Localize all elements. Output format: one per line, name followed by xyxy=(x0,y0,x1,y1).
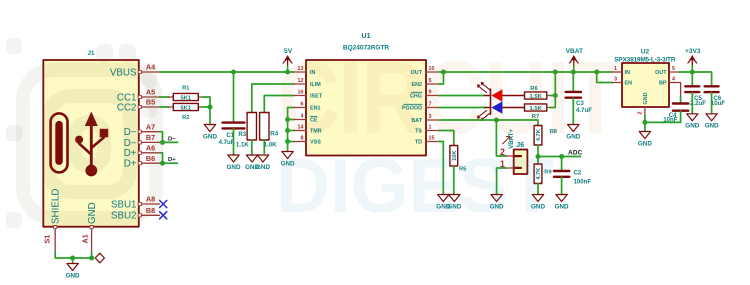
svg-text:OUT: OUT xyxy=(411,70,423,76)
svg-text:2: 2 xyxy=(638,112,644,115)
wire BP to C4 (lead) xyxy=(679,83,681,98)
svg-text:GND: GND xyxy=(566,133,580,140)
J1 USB-C plug outline glyph xyxy=(51,113,68,172)
ground R9 xyxy=(531,195,545,211)
svg-text:4: 4 xyxy=(301,114,304,120)
U1 pin 10 OUT (right) xyxy=(426,71,439,73)
svg-text:R2: R2 xyxy=(182,115,189,121)
watermark CIRCUIT text xyxy=(277,46,620,149)
svg-text:1.5K: 1.5K xyxy=(530,106,543,112)
wire R5 to GND xyxy=(453,166,455,195)
no-connect SBU1 X mark xyxy=(160,200,167,207)
svg-text:IN: IN xyxy=(310,70,315,76)
J1 pin A1 GND stub xyxy=(91,227,93,252)
J1 pin B6 D+ stub xyxy=(139,162,160,164)
U2 pin 1 IN xyxy=(613,71,622,73)
IC U1 BQ24073RGTR body xyxy=(306,60,426,156)
svg-text:10K: 10K xyxy=(452,151,458,161)
svg-text:D−: D− xyxy=(168,136,176,142)
wire OUT rail xyxy=(439,71,613,73)
svg-text:R4: R4 xyxy=(270,131,278,138)
svg-text:EN1: EN1 xyxy=(310,106,321,112)
junction U2 GND/C4 xyxy=(642,120,647,125)
svg-text:GND: GND xyxy=(490,203,504,210)
svg-text:14: 14 xyxy=(298,125,304,131)
U1 pin 4 CE (left) xyxy=(294,119,306,121)
wire BP to C4 xyxy=(680,96,682,104)
wire C1 to GND xyxy=(233,129,235,155)
resistor R4 1.0K xyxy=(260,113,269,141)
svg-text:4.7uF: 4.7uF xyxy=(576,107,592,114)
resistor R7 1.5K xyxy=(525,104,547,112)
ground J6 xyxy=(490,195,504,211)
capacitor C1 4.7uF xyxy=(223,123,245,129)
ground R5 xyxy=(447,195,461,211)
wire D+ pair A6-B6 xyxy=(160,153,163,163)
svg-text:U1: U1 xyxy=(362,33,371,40)
LED D1 red (charging) xyxy=(485,95,525,97)
IC U2 SPX3819M5-L-3-3/TR body xyxy=(622,63,669,107)
U1 pin 14 TMR (left) xyxy=(294,130,306,132)
U2 pin 2 GND xyxy=(644,107,646,116)
junction OUT/EN2 xyxy=(441,70,446,75)
junction ADC/C2 xyxy=(559,154,564,159)
wire GND stub xyxy=(72,258,74,264)
svg-text:A7: A7 xyxy=(146,122,155,131)
J1 pin A4 VBUS stub xyxy=(139,71,160,73)
ground J1 shield xyxy=(66,264,80,280)
resistor R1 5K1 xyxy=(173,93,198,101)
svg-text:5: 5 xyxy=(429,78,432,84)
ground C1 xyxy=(227,155,241,171)
junction TMR node xyxy=(285,128,290,133)
junction D- node xyxy=(160,140,165,145)
svg-text:VBUS: VBUS xyxy=(110,67,137,78)
junction 3V3 xyxy=(690,70,695,75)
svg-text:VSS: VSS xyxy=(310,140,321,146)
power symbol VBAT xyxy=(566,48,583,72)
svg-text:B8: B8 xyxy=(146,206,155,215)
wire ADC net xyxy=(538,156,581,158)
U1 pin 8 VSS (left) xyxy=(294,141,306,143)
svg-text:9: 9 xyxy=(429,90,432,96)
ground C2 xyxy=(555,195,569,211)
svg-text:D−: D− xyxy=(124,127,137,138)
wire ADC to C2 xyxy=(561,157,563,171)
wire D+ net stub xyxy=(160,162,178,164)
svg-text:R8: R8 xyxy=(550,129,558,135)
U1 pin 16 ISET (left) xyxy=(294,95,306,97)
wire R3 to GND xyxy=(251,140,253,155)
svg-text:A6: A6 xyxy=(146,144,155,153)
connector J6 battery body xyxy=(514,150,528,175)
svg-text:SPX3819M5-L-3-3/TR: SPX3819M5-L-3-3/TR xyxy=(614,56,676,63)
svg-text:J1: J1 xyxy=(87,50,95,57)
unconnected flag diamond at A1 xyxy=(95,253,104,263)
resistor R2 5K1 xyxy=(173,103,198,111)
watermark DIGEST text xyxy=(276,148,554,225)
svg-text:ISET: ISET xyxy=(310,94,323,100)
svg-text:SBU2: SBU2 xyxy=(111,211,137,222)
J1 pin B8 SBU2 stub xyxy=(139,214,160,216)
svg-text:J6: J6 xyxy=(516,142,524,149)
wire ILIM to R3 xyxy=(252,84,294,113)
ground C6 xyxy=(705,114,719,130)
J1 USB trident symbol xyxy=(75,112,108,177)
capacitor C6 10uF xyxy=(705,86,719,92)
svg-text:1: 1 xyxy=(614,66,617,72)
LED D2 blue (power good) xyxy=(485,107,525,109)
svg-text:A4: A4 xyxy=(146,63,155,72)
svg-text:GND: GND xyxy=(685,123,699,130)
svg-text:GND: GND xyxy=(531,203,545,210)
wire VBUS rail xyxy=(160,71,295,73)
svg-text:BP: BP xyxy=(659,81,667,87)
svg-text:ADC: ADC xyxy=(568,150,583,157)
svg-text:R6: R6 xyxy=(530,86,538,92)
ground TD xyxy=(436,195,450,211)
wire SHIELD to GND xyxy=(55,252,91,259)
wire CHG to LED D1 xyxy=(439,95,485,97)
svg-text:3: 3 xyxy=(429,114,432,120)
svg-text:TD: TD xyxy=(415,140,422,146)
wire R1 to R2 node xyxy=(202,97,210,107)
wire LED resistors to OUT xyxy=(550,72,555,108)
U1 pin 15 TD (right) xyxy=(426,141,439,143)
resistor R2 lead xyxy=(169,106,203,108)
LED D1/D2 cathode bar xyxy=(490,89,492,114)
svg-text:U2: U2 xyxy=(641,49,650,56)
global label VBAT+ arrow xyxy=(503,137,510,144)
svg-text:R5: R5 xyxy=(459,167,467,173)
svg-text:D−: D− xyxy=(124,138,137,149)
U1 pin 13 IN (left) xyxy=(294,71,306,73)
resistor R6 1.5K xyxy=(525,92,547,100)
U1 pin 1 TS (right) xyxy=(426,130,439,132)
resistor R5 10K xyxy=(450,146,458,167)
U1 pin 5 EN2 (right) xyxy=(426,83,439,85)
svg-text:10: 10 xyxy=(429,66,435,72)
wire OUT to 3V3/C6 xyxy=(679,72,712,86)
svg-text:R3: R3 xyxy=(238,131,246,138)
svg-text:D+: D+ xyxy=(124,159,137,170)
svg-text:VBAT: VBAT xyxy=(566,48,583,55)
wire 3V3 to C5 xyxy=(691,72,693,86)
svg-text:GND: GND xyxy=(281,160,295,167)
svg-text:GND: GND xyxy=(436,203,450,210)
svg-text:D+: D+ xyxy=(168,157,176,163)
svg-text:13: 13 xyxy=(298,66,304,72)
svg-text:3: 3 xyxy=(614,76,617,82)
svg-text:S1: S1 xyxy=(43,235,52,244)
J1 pin B7 D&#8722; stub xyxy=(139,141,160,143)
U1 CE overline xyxy=(310,115,317,117)
junction R1/R2 node xyxy=(208,105,213,110)
svg-text:12: 12 xyxy=(298,78,304,84)
svg-text:GND: GND xyxy=(256,164,270,171)
J1 pin S1 SHIELD stub xyxy=(54,227,56,252)
wire J6 pin1 to GND xyxy=(497,168,507,195)
LED D2 emission arrows xyxy=(478,110,491,120)
svg-text:SHIELD: SHIELD xyxy=(51,189,62,224)
U1 pin 6 EN1 (left) xyxy=(294,107,306,109)
junction D+ node xyxy=(160,161,165,166)
svg-text:5K1: 5K1 xyxy=(180,105,191,111)
svg-text:+3V3: +3V3 xyxy=(685,48,701,55)
capacitor C5 2.2uF xyxy=(685,86,699,92)
resistor R9 4.7K xyxy=(534,164,542,184)
resistor R6/R7 right leads xyxy=(547,96,550,108)
svg-text:B5: B5 xyxy=(146,98,155,107)
wire TS to R5 xyxy=(439,131,454,146)
svg-text:100nF: 100nF xyxy=(574,178,592,185)
junction CE node xyxy=(285,117,290,122)
junction OUT/LED resistors xyxy=(553,70,558,75)
svg-text:4: 4 xyxy=(672,76,675,82)
U1 PGOOD overline xyxy=(404,103,422,105)
svg-text:R1: R1 xyxy=(182,86,190,92)
wire EN to OUT rail xyxy=(597,72,613,83)
svg-text:6: 6 xyxy=(301,102,304,108)
svg-text:IN: IN xyxy=(625,70,630,76)
wire VBAT to C3 xyxy=(572,72,574,92)
capacitor C2 100nF xyxy=(554,171,569,177)
U1 CHG overline xyxy=(412,91,423,93)
wire EN2 to OUT xyxy=(439,72,444,84)
J6 pin 1 contact xyxy=(514,167,521,169)
wire CE to rail xyxy=(288,119,294,121)
U2 pin 5 OUT xyxy=(669,71,679,73)
wire R8 to R9 xyxy=(537,145,539,164)
ground U2 xyxy=(638,132,652,148)
svg-text:CC2: CC2 xyxy=(117,102,137,113)
ground R4 xyxy=(256,155,270,171)
capacitor C3 4.7uF xyxy=(566,92,581,98)
junction A1/GND node xyxy=(89,256,94,261)
svg-text:2: 2 xyxy=(500,147,505,157)
svg-text:A8: A8 xyxy=(146,195,155,204)
svg-text:1: 1 xyxy=(429,125,432,131)
svg-text:TS: TS xyxy=(415,129,422,135)
wire TD to GND xyxy=(439,142,443,195)
power symbol 5V xyxy=(283,48,293,72)
LED D1 emission arrows xyxy=(478,83,491,93)
wire C3 to GND xyxy=(572,98,574,124)
wire VBUS to C1 xyxy=(233,72,235,122)
J1 pin B5 CC2 stub xyxy=(139,106,160,108)
ground CC pulldowns xyxy=(203,125,217,141)
J1 pin A5 CC1 stub xyxy=(139,96,160,98)
wire EN1 ground rail xyxy=(288,108,294,152)
svg-text:CE: CE xyxy=(310,118,318,124)
svg-text:SBU1: SBU1 xyxy=(111,199,137,210)
svg-text:16: 16 xyxy=(298,90,304,96)
svg-text:TMR: TMR xyxy=(310,129,322,135)
svg-text:4.7K: 4.7K xyxy=(536,129,542,141)
svg-text:ILIM: ILIM xyxy=(310,82,321,88)
svg-text:GND: GND xyxy=(638,140,652,147)
U2 pin 4 BP xyxy=(669,82,679,84)
junction R6 node xyxy=(553,93,558,98)
svg-text:GND: GND xyxy=(705,123,719,130)
svg-text:5V: 5V xyxy=(284,48,293,55)
svg-text:8: 8 xyxy=(301,136,304,142)
J1 USB-C plug inner bar xyxy=(55,121,63,165)
svg-text:15: 15 xyxy=(429,136,435,142)
svg-text:5: 5 xyxy=(672,66,675,72)
wire R9 to GND xyxy=(537,184,539,195)
wire C4 to U2 GND node xyxy=(645,111,681,123)
junction SHIELD/GND node xyxy=(70,256,75,261)
svg-text:GND: GND xyxy=(87,202,98,224)
J1 pin A8 SBU1 stub xyxy=(139,203,160,205)
U1 pin 3 BAT (right) xyxy=(426,119,439,121)
J1 pin A7 D&#8722; stub xyxy=(139,131,160,133)
svg-text:PGOOD: PGOOD xyxy=(402,106,422,112)
wire A1 to GND xyxy=(91,252,93,258)
ground C5 xyxy=(685,114,699,130)
svg-text:D+: D+ xyxy=(124,148,137,159)
junction VSS node xyxy=(285,139,290,144)
wire U2 GND xyxy=(644,116,646,132)
svg-text:GND: GND xyxy=(643,92,649,104)
svg-text:C2: C2 xyxy=(574,169,582,176)
watermark CircuitDigest chip logo xyxy=(0,0,230,285)
svg-text:GND: GND xyxy=(555,203,569,210)
junction OUT/VBAT xyxy=(571,70,576,75)
junction VBUS/5V xyxy=(285,70,290,75)
junction BAT/J6 xyxy=(494,118,499,123)
svg-text:BAT: BAT xyxy=(411,118,422,124)
wire BAT to J6 pin2 xyxy=(496,120,506,156)
svg-text:1.5K: 1.5K xyxy=(530,94,543,100)
wire D- pair A7-B7 xyxy=(160,132,163,143)
svg-text:1.1K: 1.1K xyxy=(236,142,249,149)
capacitor C4 10nF xyxy=(673,104,688,111)
svg-text:B6: B6 xyxy=(146,154,155,163)
ground C3 xyxy=(566,125,580,141)
svg-text:5K1: 5K1 xyxy=(180,95,191,101)
J6 pin 1 stub xyxy=(507,167,514,169)
svg-text:1.0K: 1.0K xyxy=(264,142,277,149)
resistor R1 lead xyxy=(169,96,203,98)
wire PGOOD to LED D2 xyxy=(439,107,485,109)
wire C6 to GND xyxy=(711,93,713,114)
wire CC1 to R1 xyxy=(160,96,169,98)
svg-text:EN2: EN2 xyxy=(412,82,423,88)
svg-text:GND: GND xyxy=(66,272,80,279)
U2 pin 3 EN xyxy=(613,82,622,84)
power symbol +3V3 xyxy=(685,48,701,72)
svg-text:OUT: OUT xyxy=(655,70,667,76)
junction OUT/EN riser xyxy=(594,70,599,75)
U1 pin 7 PGOOD (right) xyxy=(426,107,439,109)
svg-text:VBAT+: VBAT+ xyxy=(508,129,515,149)
svg-text:A1: A1 xyxy=(81,234,90,243)
svg-text:BQ24073RGTR: BQ24073RGTR xyxy=(343,45,390,52)
ground R3 xyxy=(245,155,259,171)
junction divider/ADC xyxy=(536,154,541,159)
junction VBUS/C1 xyxy=(231,70,236,75)
wire R2 to GND xyxy=(202,107,210,125)
U1 pin 12 ILIM (left) xyxy=(294,83,306,85)
svg-text:GND: GND xyxy=(227,164,241,171)
wire TMR to rail xyxy=(288,130,294,132)
svg-text:R9: R9 xyxy=(544,170,552,176)
svg-text:CHG: CHG xyxy=(410,94,422,100)
wire CC2 to R2 xyxy=(160,106,169,108)
svg-text:EN: EN xyxy=(625,81,633,87)
ground U1 control pins xyxy=(281,152,295,168)
svg-text:10uF: 10uF xyxy=(711,100,726,107)
U1 pin 9 CHG (right) xyxy=(426,95,439,97)
svg-text:4.7K: 4.7K xyxy=(536,168,542,180)
wire C5 to GND xyxy=(691,93,693,114)
J6 pin 2 contact xyxy=(514,155,521,157)
svg-text:GND: GND xyxy=(203,133,217,140)
wire VSS to rail xyxy=(288,141,294,143)
svg-text:4.7uF: 4.7uF xyxy=(219,139,235,146)
svg-text:R7: R7 xyxy=(532,114,539,120)
wire BAT to R8 xyxy=(439,120,538,126)
wire C2 to GND xyxy=(561,177,563,194)
svg-text:A5: A5 xyxy=(146,88,155,97)
resistor R3 1.1K xyxy=(247,113,256,141)
resistor R8 4.7K xyxy=(534,126,542,146)
no-connect SBU2 X mark xyxy=(160,212,167,219)
wire D- net stub xyxy=(160,141,178,143)
wire R4 to GND xyxy=(263,140,265,154)
svg-text:B7: B7 xyxy=(146,133,155,142)
svg-text:7: 7 xyxy=(429,102,432,108)
wire ISET to R4 xyxy=(264,96,294,113)
J6 pin 2 stub xyxy=(507,155,514,157)
connector J1 USB-C receptacle body xyxy=(43,60,139,227)
J1 pin A6 D+ stub xyxy=(139,152,160,154)
